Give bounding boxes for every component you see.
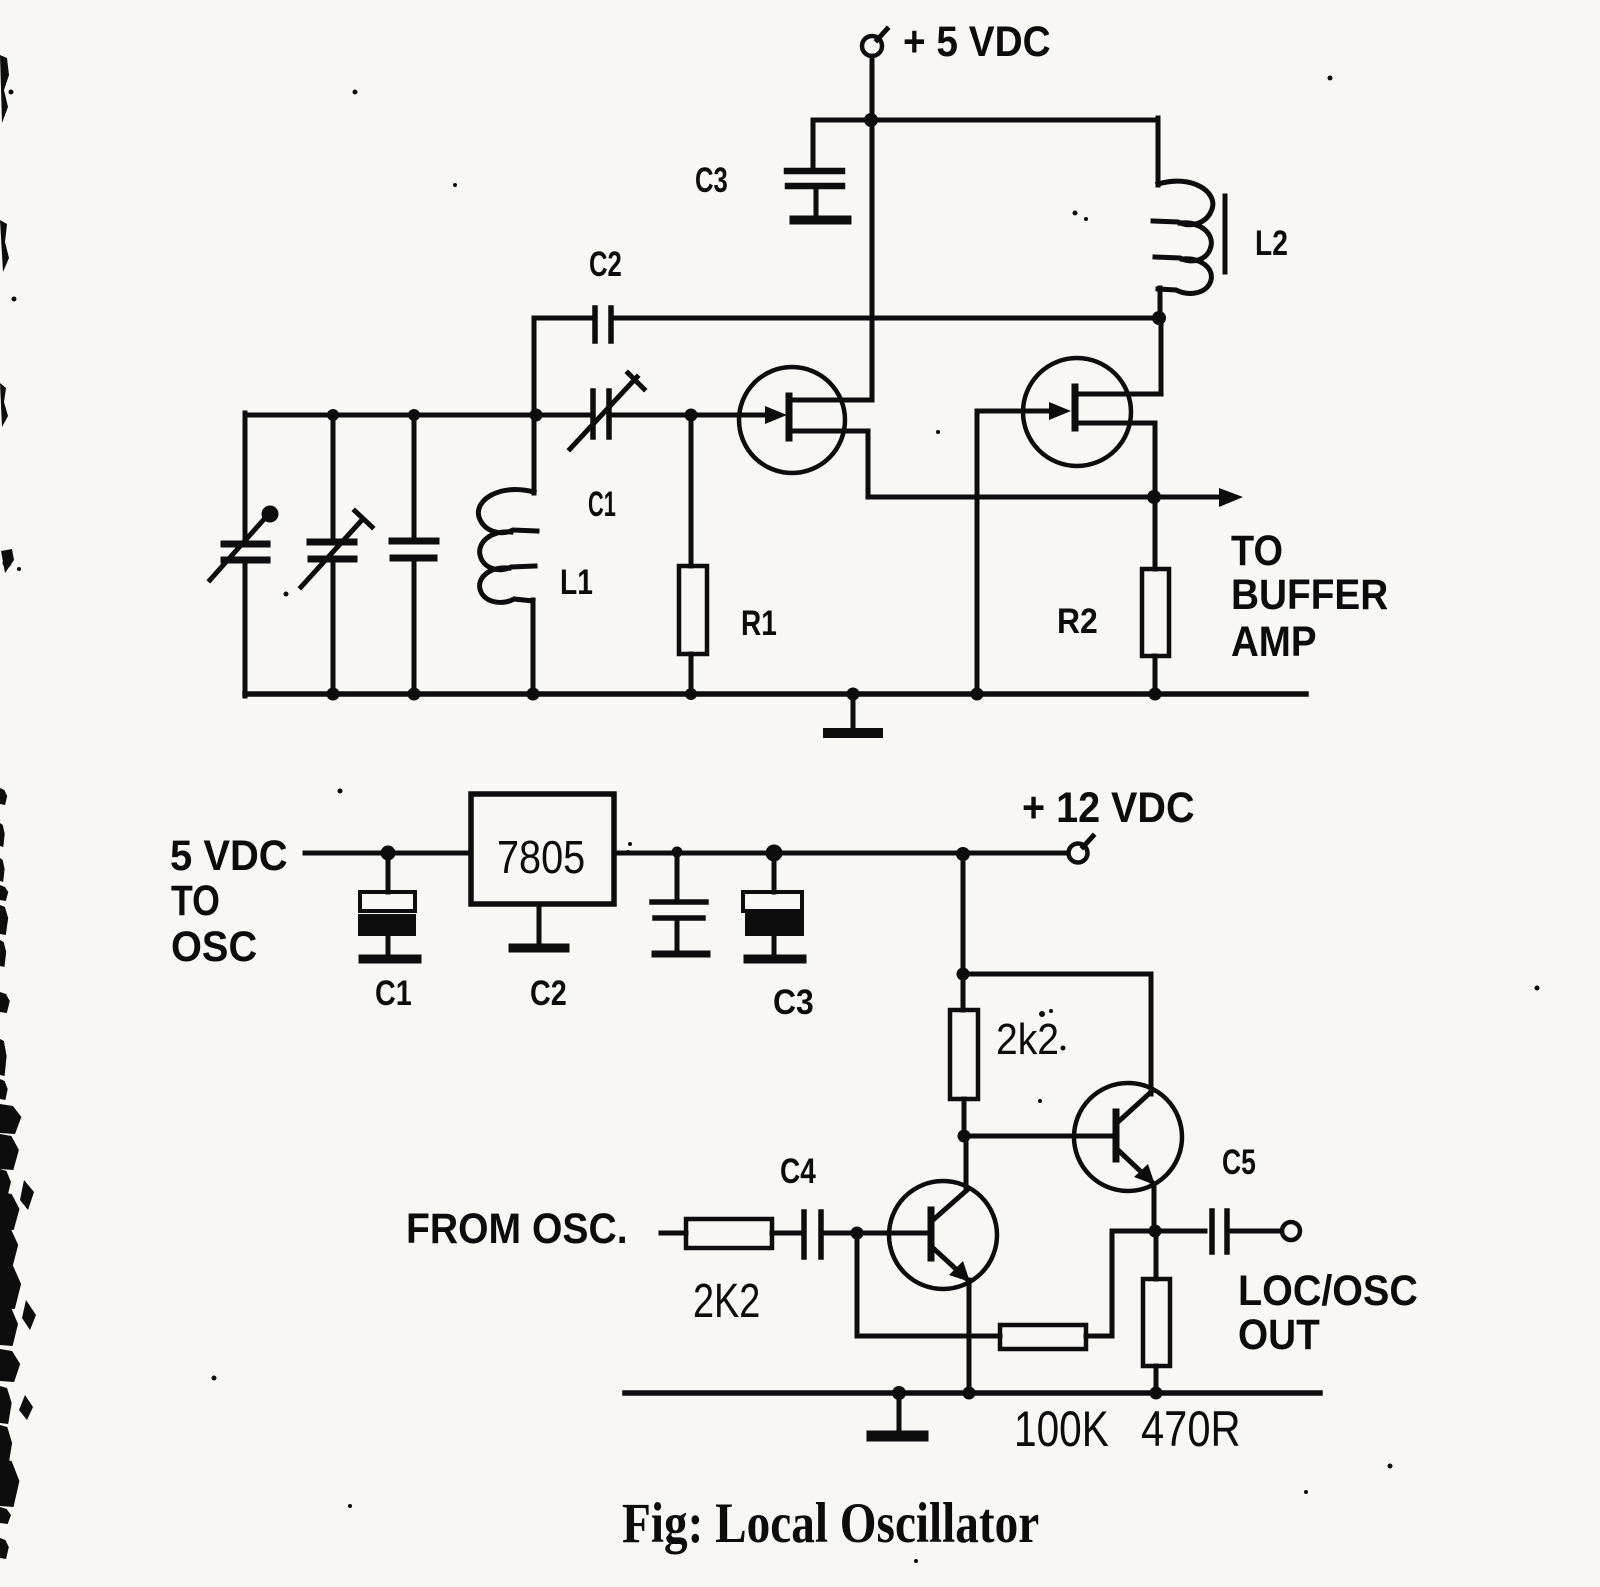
junction 12V branch node	[956, 847, 970, 861]
svg-text:C3: C3	[773, 984, 814, 1023]
capacitor fixed tank	[392, 541, 436, 558]
svg-text:TO: TO	[1231, 526, 1283, 575]
wire L2 top lead	[1156, 118, 1161, 185]
capacitor C1 electrolytic	[358, 853, 417, 959]
svg-text:FROM OSC.: FROM OSC.	[406, 1204, 628, 1252]
svg-text:470R: 470R	[1141, 1400, 1241, 1456]
svg-text:OUT: OUT	[1238, 1310, 1320, 1358]
capacitor C3 electrolytic	[743, 853, 804, 959]
wire L2 to Q2 drain	[1159, 318, 1164, 394]
wire to C5	[1155, 1229, 1205, 1234]
wire FROM OSC lead	[661, 1231, 686, 1236]
scan specks	[212, 76, 1540, 1564]
junction C3 node	[766, 845, 783, 862]
wire base bias down	[855, 1233, 860, 1336]
capacitor C2 bar	[513, 944, 565, 953]
wire Q4 collector riser	[964, 1136, 969, 1190]
resistor R1	[679, 566, 707, 654]
node LOC/OSC OUT terminal	[1282, 1222, 1300, 1240]
svg-text:C4: C4	[780, 1151, 816, 1191]
wire R1 bottom lead	[689, 654, 694, 694]
wire feedback left	[1112, 1229, 1155, 1234]
svg-text:L2: L2	[1255, 223, 1288, 263]
svg-text:7805: 7805	[497, 832, 585, 883]
wire C2 row right	[614, 316, 1159, 321]
svg-text:LOC/OSC: LOC/OSC	[1238, 1266, 1418, 1314]
capacitor C3	[787, 171, 847, 220]
wire 5VDC input	[305, 851, 471, 856]
resistor 470R	[1143, 1279, 1170, 1366]
wire Q3 collector riser	[1149, 974, 1154, 1094]
wire C2 to tank vertical	[532, 318, 537, 416]
wire ground rail top circuit	[245, 691, 1306, 697]
resistor R2	[1142, 569, 1169, 656]
wire R2 bottom lead	[1153, 656, 1158, 694]
arrowhead to buffer amp	[1219, 488, 1243, 507]
wire C3 stub	[811, 120, 816, 167]
scan noise left edge	[0, 55, 36, 1559]
wire +5V vertical	[870, 56, 875, 400]
node +12VDC terminal	[1069, 836, 1094, 863]
junction C1 node	[381, 846, 396, 861]
junction Q3 base node	[958, 1130, 971, 1143]
junction L2-drain node	[1152, 311, 1166, 325]
variable capacitor C1	[570, 373, 644, 449]
svg-text:R1: R1	[741, 603, 777, 643]
wire Q3 base	[964, 1134, 1112, 1139]
wire 2k2 bottom lead	[962, 1099, 967, 1136]
inductor L2	[1153, 181, 1213, 293]
svg-text:Fig: Local Oscillator: Fig: Local Oscillator	[622, 1492, 1039, 1555]
wire C2 row left	[534, 316, 592, 321]
svg-text:C3: C3	[695, 160, 728, 200]
svg-text:L1: L1	[560, 562, 593, 602]
svg-text:C1: C1	[375, 973, 412, 1012]
wire L1 bottom lead	[531, 600, 536, 694]
wire 100K to base node	[857, 1334, 1000, 1339]
junction R2 output node	[1147, 490, 1161, 504]
gate arrowhead Q2	[1049, 402, 1071, 420]
wire output row	[868, 495, 1224, 500]
wire collector feed horizontal	[963, 972, 1151, 977]
svg-text:+ 12 VDC: + 12 VDC	[1022, 783, 1195, 831]
wire 2K2 to C4	[772, 1231, 800, 1236]
svg-text:C2: C2	[589, 244, 622, 284]
svg-text:+ 5 VDC: + 5 VDC	[903, 17, 1051, 65]
wire Q2 gate lead	[977, 409, 1052, 414]
wire gate row right	[613, 413, 768, 418]
junction bottom rail dots	[892, 1386, 1163, 1400]
resistor 100K	[1000, 1325, 1086, 1349]
transistor Q1 JFET	[739, 367, 872, 473]
wire feedback down	[1110, 1231, 1115, 1336]
wire 470R top lead	[1154, 1231, 1159, 1279]
capacitor C4	[804, 1212, 821, 1257]
junction +5V node	[864, 113, 878, 127]
wire feedback to 100K	[1086, 1334, 1112, 1339]
regulator U1 7805	[471, 794, 614, 904]
ground symbol top circuit	[828, 694, 878, 733]
junction ground rail dots	[327, 688, 1162, 701]
capacitor C5	[1212, 1211, 1227, 1252]
wire 470R bottom lead	[1154, 1366, 1159, 1393]
wire L1 top lead	[532, 415, 537, 493]
wire ground rail bottom circuit	[625, 1390, 1320, 1396]
wire tank branch 2	[331, 415, 336, 694]
wire Q2 source to R2	[1153, 423, 1158, 569]
wire Q2 gate leg	[975, 411, 980, 694]
core bar of L2	[1223, 196, 1228, 272]
transistor Q2 JFET	[1023, 358, 1161, 466]
svg-text:5 VDC: 5 VDC	[170, 831, 288, 880]
wire Q1 source down	[866, 431, 871, 497]
svg-text:OSC: OSC	[171, 923, 257, 971]
wire 12V row	[614, 851, 1068, 856]
transistor Q4	[889, 1181, 997, 1289]
capacitor C2	[595, 308, 611, 341]
wire tank branch 3	[412, 415, 417, 694]
svg-text:2K2: 2K2	[693, 1275, 760, 1328]
wire Q4 emitter down	[967, 1280, 972, 1393]
node +5VDC terminal	[862, 29, 887, 56]
wire R1 top lead	[689, 415, 694, 566]
wire C5 to output terminal	[1230, 1229, 1281, 1234]
variable capacitor VC2	[301, 511, 372, 587]
svg-text:C5: C5	[1222, 1142, 1256, 1181]
svg-text:AMP: AMP	[1231, 617, 1317, 665]
svg-text:2k2: 2k2	[996, 1014, 1059, 1064]
wire L2 bottom lead	[1158, 288, 1163, 318]
wire C4 to base	[824, 1231, 928, 1236]
gate arrowhead Q1	[765, 406, 787, 424]
svg-text:R2: R2	[1057, 603, 1098, 642]
wire 12V down leg	[961, 854, 966, 1010]
wire +5V horizontal rail	[813, 118, 1158, 123]
wire gate row left	[245, 413, 588, 418]
svg-text:C1: C1	[588, 486, 616, 524]
wire tank left leg	[243, 413, 248, 696]
capacitor mid filter	[652, 853, 707, 954]
transistor Q3	[1074, 1083, 1182, 1191]
inductor L1	[478, 490, 537, 603]
svg-text:TO: TO	[171, 877, 220, 925]
resistor 2K2 series	[686, 1219, 772, 1248]
svg-text:C2: C2	[530, 973, 567, 1012]
wire 7805 ground pin	[537, 904, 542, 945]
ground symbol bottom circuit	[872, 1393, 923, 1436]
junction emitter output node	[1149, 1225, 1162, 1238]
svg-text:100K: 100K	[1014, 1401, 1109, 1457]
junction Q4 base node	[851, 1227, 864, 1240]
variable capacitor VC1	[210, 506, 279, 581]
junction midcap node	[672, 847, 683, 858]
junction gate row dots	[327, 409, 698, 422]
resistor 2k2 vertical	[950, 1010, 978, 1099]
junction collector feed node	[957, 968, 970, 981]
svg-text:BUFFER: BUFFER	[1231, 570, 1388, 618]
wire Q3 emitter down	[1152, 1184, 1157, 1231]
